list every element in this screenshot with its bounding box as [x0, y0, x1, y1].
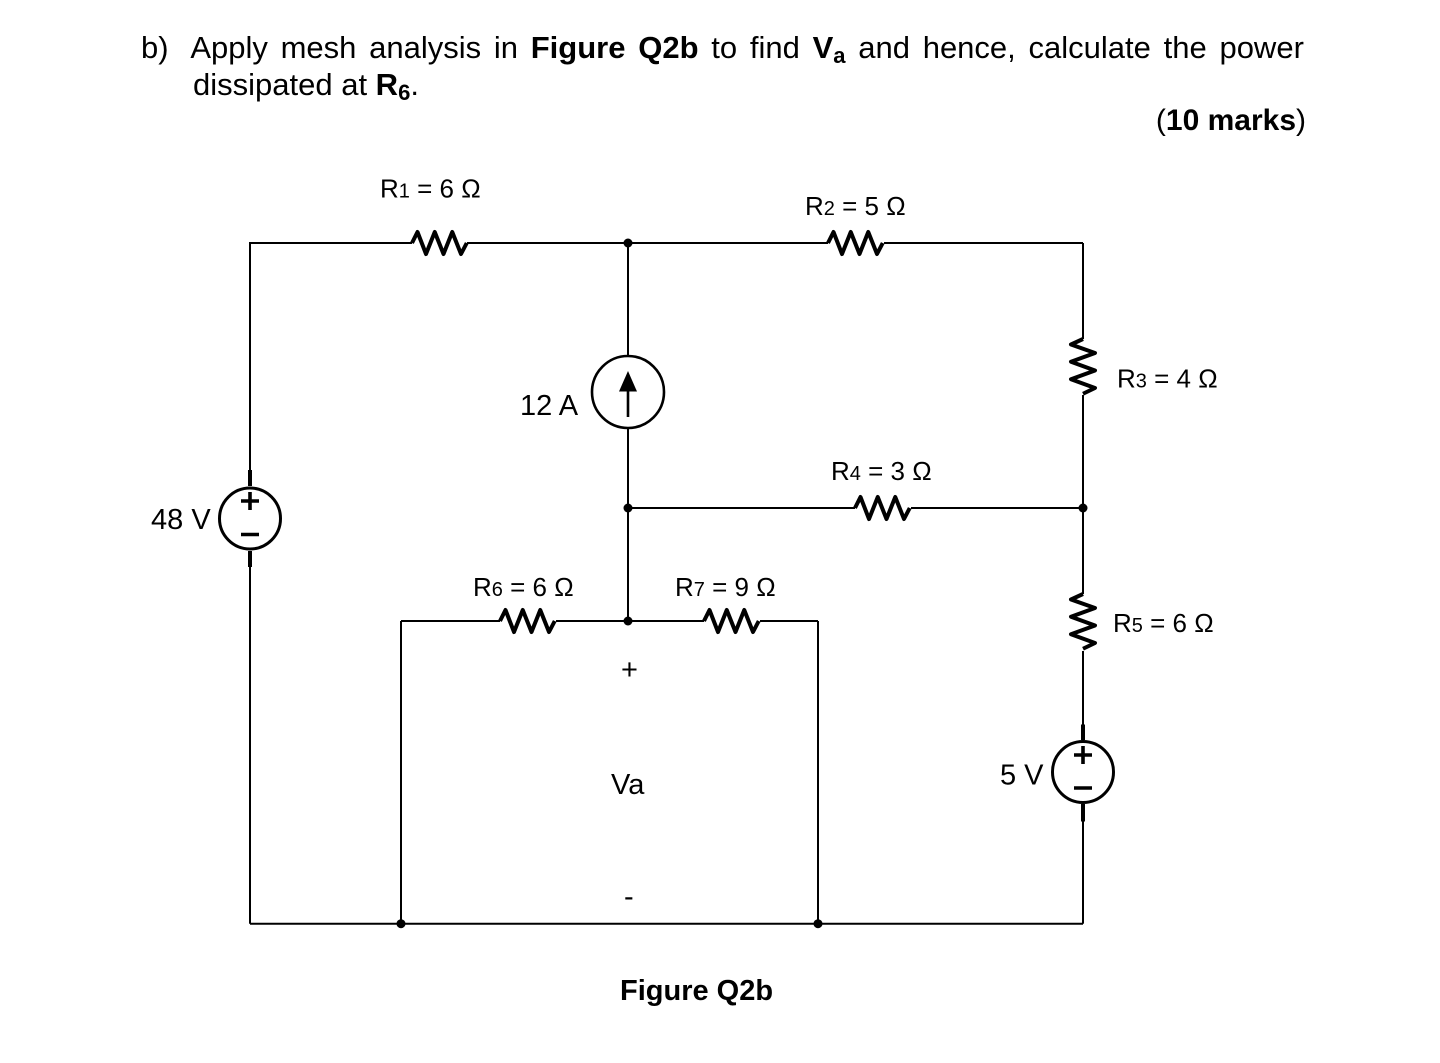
- wire left-upper: [249, 242, 251, 470]
- svg-text:R6 = 6 Ω: R6 = 6 Ω: [473, 572, 574, 602]
- wire left-lower: [249, 566, 251, 924]
- svg-text:R7 = 9 Ω: R7 = 9 Ω: [675, 572, 776, 602]
- svg-text:5 V: 5 V: [1000, 760, 1044, 792]
- wire right-middle: [1082, 395, 1084, 594]
- marks: [0, 103, 1306, 139]
- svg-text:R5 = 6 Ω: R5 = 6 Ω: [1113, 608, 1214, 638]
- wire top-right: [884, 242, 1083, 244]
- junction node top: [624, 239, 633, 248]
- wire middle-lower: [627, 428, 629, 621]
- resistor R6: [500, 610, 555, 632]
- wire top-middle: [467, 242, 828, 244]
- wire right-upper: [1082, 243, 1084, 339]
- svg-text:48 V: 48 V: [151, 504, 211, 536]
- resistor R2: [828, 232, 883, 254]
- svg-text:-: -: [624, 881, 634, 913]
- wire R4-left: [628, 507, 855, 509]
- problem statement line 1: [141, 30, 1304, 74]
- resistor R7: [704, 610, 759, 632]
- wire innerbox top-right: [760, 620, 818, 622]
- svg-text:12 A: 12 A: [520, 390, 579, 422]
- wire innerbox left: [400, 621, 402, 924]
- wire innerbox right: [817, 621, 819, 924]
- wire bottom: [250, 923, 1083, 925]
- svg-text:R1 = 6 Ω: R1 = 6 Ω: [380, 174, 481, 204]
- resistor R4: [855, 497, 910, 519]
- junction node bottom-right: [814, 919, 823, 928]
- wire top-left: [250, 242, 412, 244]
- wire innerbox top-left: [401, 620, 500, 622]
- junction node bottom-left: [397, 919, 406, 928]
- svg-text:Va: Va: [611, 769, 645, 801]
- wire right-lower: [1082, 651, 1084, 725]
- junction node inner-top: [624, 617, 633, 626]
- svg-text:R2 = 5 Ω: R2 = 5 Ω: [805, 191, 906, 221]
- wire right-bottom: [1082, 821, 1084, 924]
- svg-text:+: +: [621, 654, 638, 686]
- wire R4-right: [911, 507, 1083, 509]
- problem statement line 2: [193, 67, 419, 111]
- voltage source V1 48V: [220, 470, 281, 567]
- wire innerbox top-middle: [556, 620, 704, 622]
- resistor R1: [412, 232, 467, 254]
- svg-text:R3 = 4 Ω: R3 = 4 Ω: [1117, 364, 1218, 394]
- junction node mid-left: [624, 504, 633, 513]
- svg-text:R4 = 3 Ω: R4 = 3 Ω: [831, 456, 932, 486]
- wire middle-upper: [627, 243, 629, 357]
- resistor R5: [1071, 594, 1095, 649]
- current source I1 12A: [592, 356, 664, 428]
- resistor R3: [1071, 339, 1095, 394]
- voltage source V2 5V: [1053, 725, 1114, 822]
- figure caption: [620, 975, 773, 1007]
- junction node mid-right: [1079, 504, 1088, 513]
